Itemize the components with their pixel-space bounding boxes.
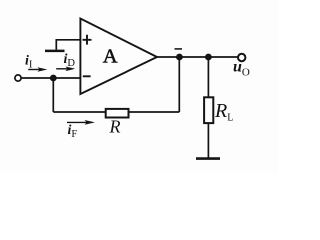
wire: load branch down: [207, 57, 209, 158]
wire: output run: [157, 56, 238, 58]
ground (non-inverting input): [45, 50, 65, 53]
node: feedback/output junction: [176, 54, 183, 61]
op-amp + pin mark: [83, 35, 92, 45]
wire: junction down to feedback path: [52, 78, 54, 112]
current arrow iF: [67, 120, 95, 125]
minus polarity dash above output node: [175, 48, 183, 50]
svg-text:iI: iI: [25, 54, 33, 71]
wire: + input lead from op-amp to ground branch: [56, 40, 80, 50]
op-amp - pin mark: [83, 75, 91, 77]
current arrow iI: [28, 67, 47, 72]
svg-text:R: R: [109, 117, 121, 137]
wire: feedback up to output node: [178, 57, 180, 112]
resistor R (feedback): [106, 109, 129, 118]
wire: feedback bottom run: [53, 111, 179, 113]
wire: input to inverting input: [21, 77, 80, 79]
svg-text:A: A: [103, 46, 118, 68]
resistor RL (load): [204, 97, 213, 123]
ground (load): [196, 157, 220, 160]
svg-text:uO: uO: [233, 58, 250, 78]
svg-text:iF: iF: [68, 123, 78, 140]
op-amp U1: [80, 19, 157, 95]
node: load junction: [205, 54, 212, 61]
output terminal (open circle): [238, 54, 245, 61]
current arrow iD: [56, 67, 75, 72]
svg-text:iD: iD: [64, 52, 76, 69]
input terminal (open circle): [15, 75, 21, 81]
svg-text:RL: RL: [214, 100, 233, 124]
node: input junction: [50, 75, 57, 82]
